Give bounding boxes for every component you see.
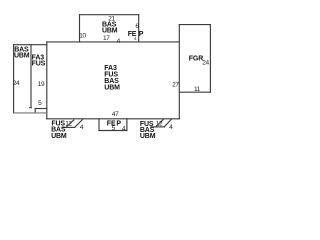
- svg-text:UBM: UBM: [14, 52, 30, 59]
- svg-text:12: 12: [65, 120, 72, 127]
- left wing bottom wall (lighter): [14, 112, 47, 114]
- svg-text:UBM: UBM: [51, 133, 67, 140]
- main house bottom wall: [47, 118, 180, 120]
- svg-text:4: 4: [122, 126, 126, 133]
- svg-text:11: 11: [194, 86, 201, 93]
- svg-text:4: 4: [169, 124, 173, 131]
- svg-text:17: 17: [103, 35, 110, 42]
- right stairs lower edge: [151, 126, 164, 128]
- left wing interior divider: [30, 45, 32, 108]
- svg-text:10: 10: [79, 32, 86, 39]
- left stairs lower edge: [63, 126, 75, 128]
- svg-text:4: 4: [117, 38, 121, 45]
- left wing left wall: [13, 45, 15, 113]
- svg-text:27: 27: [172, 81, 179, 88]
- left wing step vertical: [34, 109, 36, 113]
- bottom porch FEP bottom wall: [99, 130, 127, 132]
- garage FGR top wall: [179, 24, 210, 26]
- svg-text:4: 4: [134, 36, 137, 41]
- left wing step horizontal: [35, 108, 47, 110]
- right stairs diagonal 1: [156, 120, 163, 127]
- svg-text:24: 24: [202, 59, 209, 66]
- svg-text:24: 24: [13, 80, 20, 87]
- main house right wall: [178, 25, 180, 119]
- svg-text:5: 5: [38, 100, 42, 107]
- svg-text:FGR: FGR: [189, 56, 203, 63]
- garage FGR bottom wall: [179, 91, 210, 93]
- svg-text:UBM: UBM: [140, 133, 156, 140]
- svg-text:UBM: UBM: [102, 28, 118, 35]
- svg-text:UBM: UBM: [104, 84, 120, 91]
- left wing top wall: [14, 44, 47, 46]
- top addition box (BAS/UBM 21x17) top wall: [80, 14, 139, 16]
- svg-text:FUS: FUS: [32, 61, 46, 68]
- bottom porch FEP left wall: [98, 119, 100, 131]
- svg-text:4: 4: [80, 124, 84, 131]
- bottom porch FEP right wall: [126, 119, 128, 131]
- svg-text:12: 12: [156, 120, 163, 127]
- top addition left wall: [79, 15, 81, 42]
- left stairs diagonal 2: [75, 119, 83, 127]
- divider foot tick: [30, 107, 32, 109]
- left stairs diagonal 1: [67, 120, 74, 127]
- svg-text:19: 19: [38, 81, 45, 88]
- svg-text:47: 47: [112, 111, 119, 118]
- main house top wall: [47, 41, 180, 43]
- main house left wall: [46, 42, 48, 119]
- top addition right wall: [138, 15, 140, 42]
- right stairs diagonal 2: [164, 119, 171, 127]
- garage FGR right wall: [209, 25, 211, 93]
